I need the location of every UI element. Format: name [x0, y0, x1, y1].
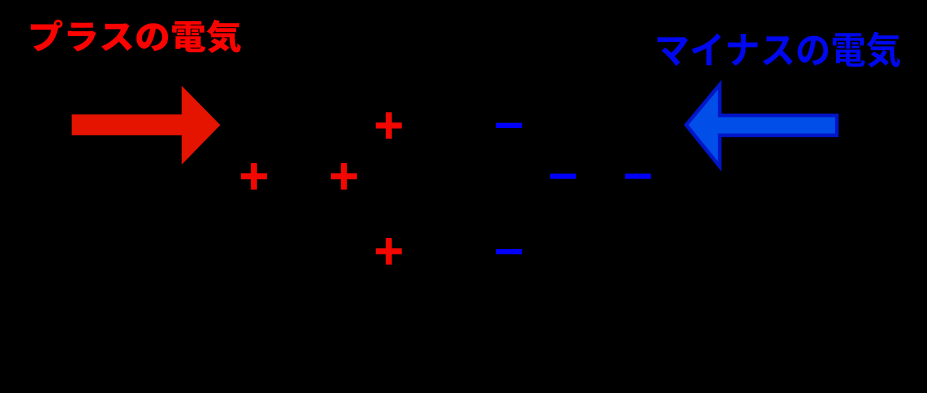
minus charge M1 (top) — [496, 123, 522, 128]
label: plus electricity (プラスの電気) — [31, 20, 241, 53]
plus charge P1 (top) — [376, 112, 402, 139]
plus charge P3 (middle) — [331, 163, 357, 190]
blue arrow pointing left (minus charge direction) — [684, 80, 839, 172]
minus charge M2 (mid-left) — [550, 174, 576, 179]
plus charge P4 (bottom) — [376, 238, 402, 265]
red arrow pointing right (plus charge direction) — [72, 86, 221, 165]
minus charge M3 (mid-right) — [625, 174, 651, 179]
minus charge M4 (bottom) — [496, 249, 522, 254]
plus charge P2 (left) — [241, 163, 267, 190]
label: minus electricity (マイナスの電気) — [658, 32, 901, 68]
blue arrow inner fill — [689, 90, 836, 162]
